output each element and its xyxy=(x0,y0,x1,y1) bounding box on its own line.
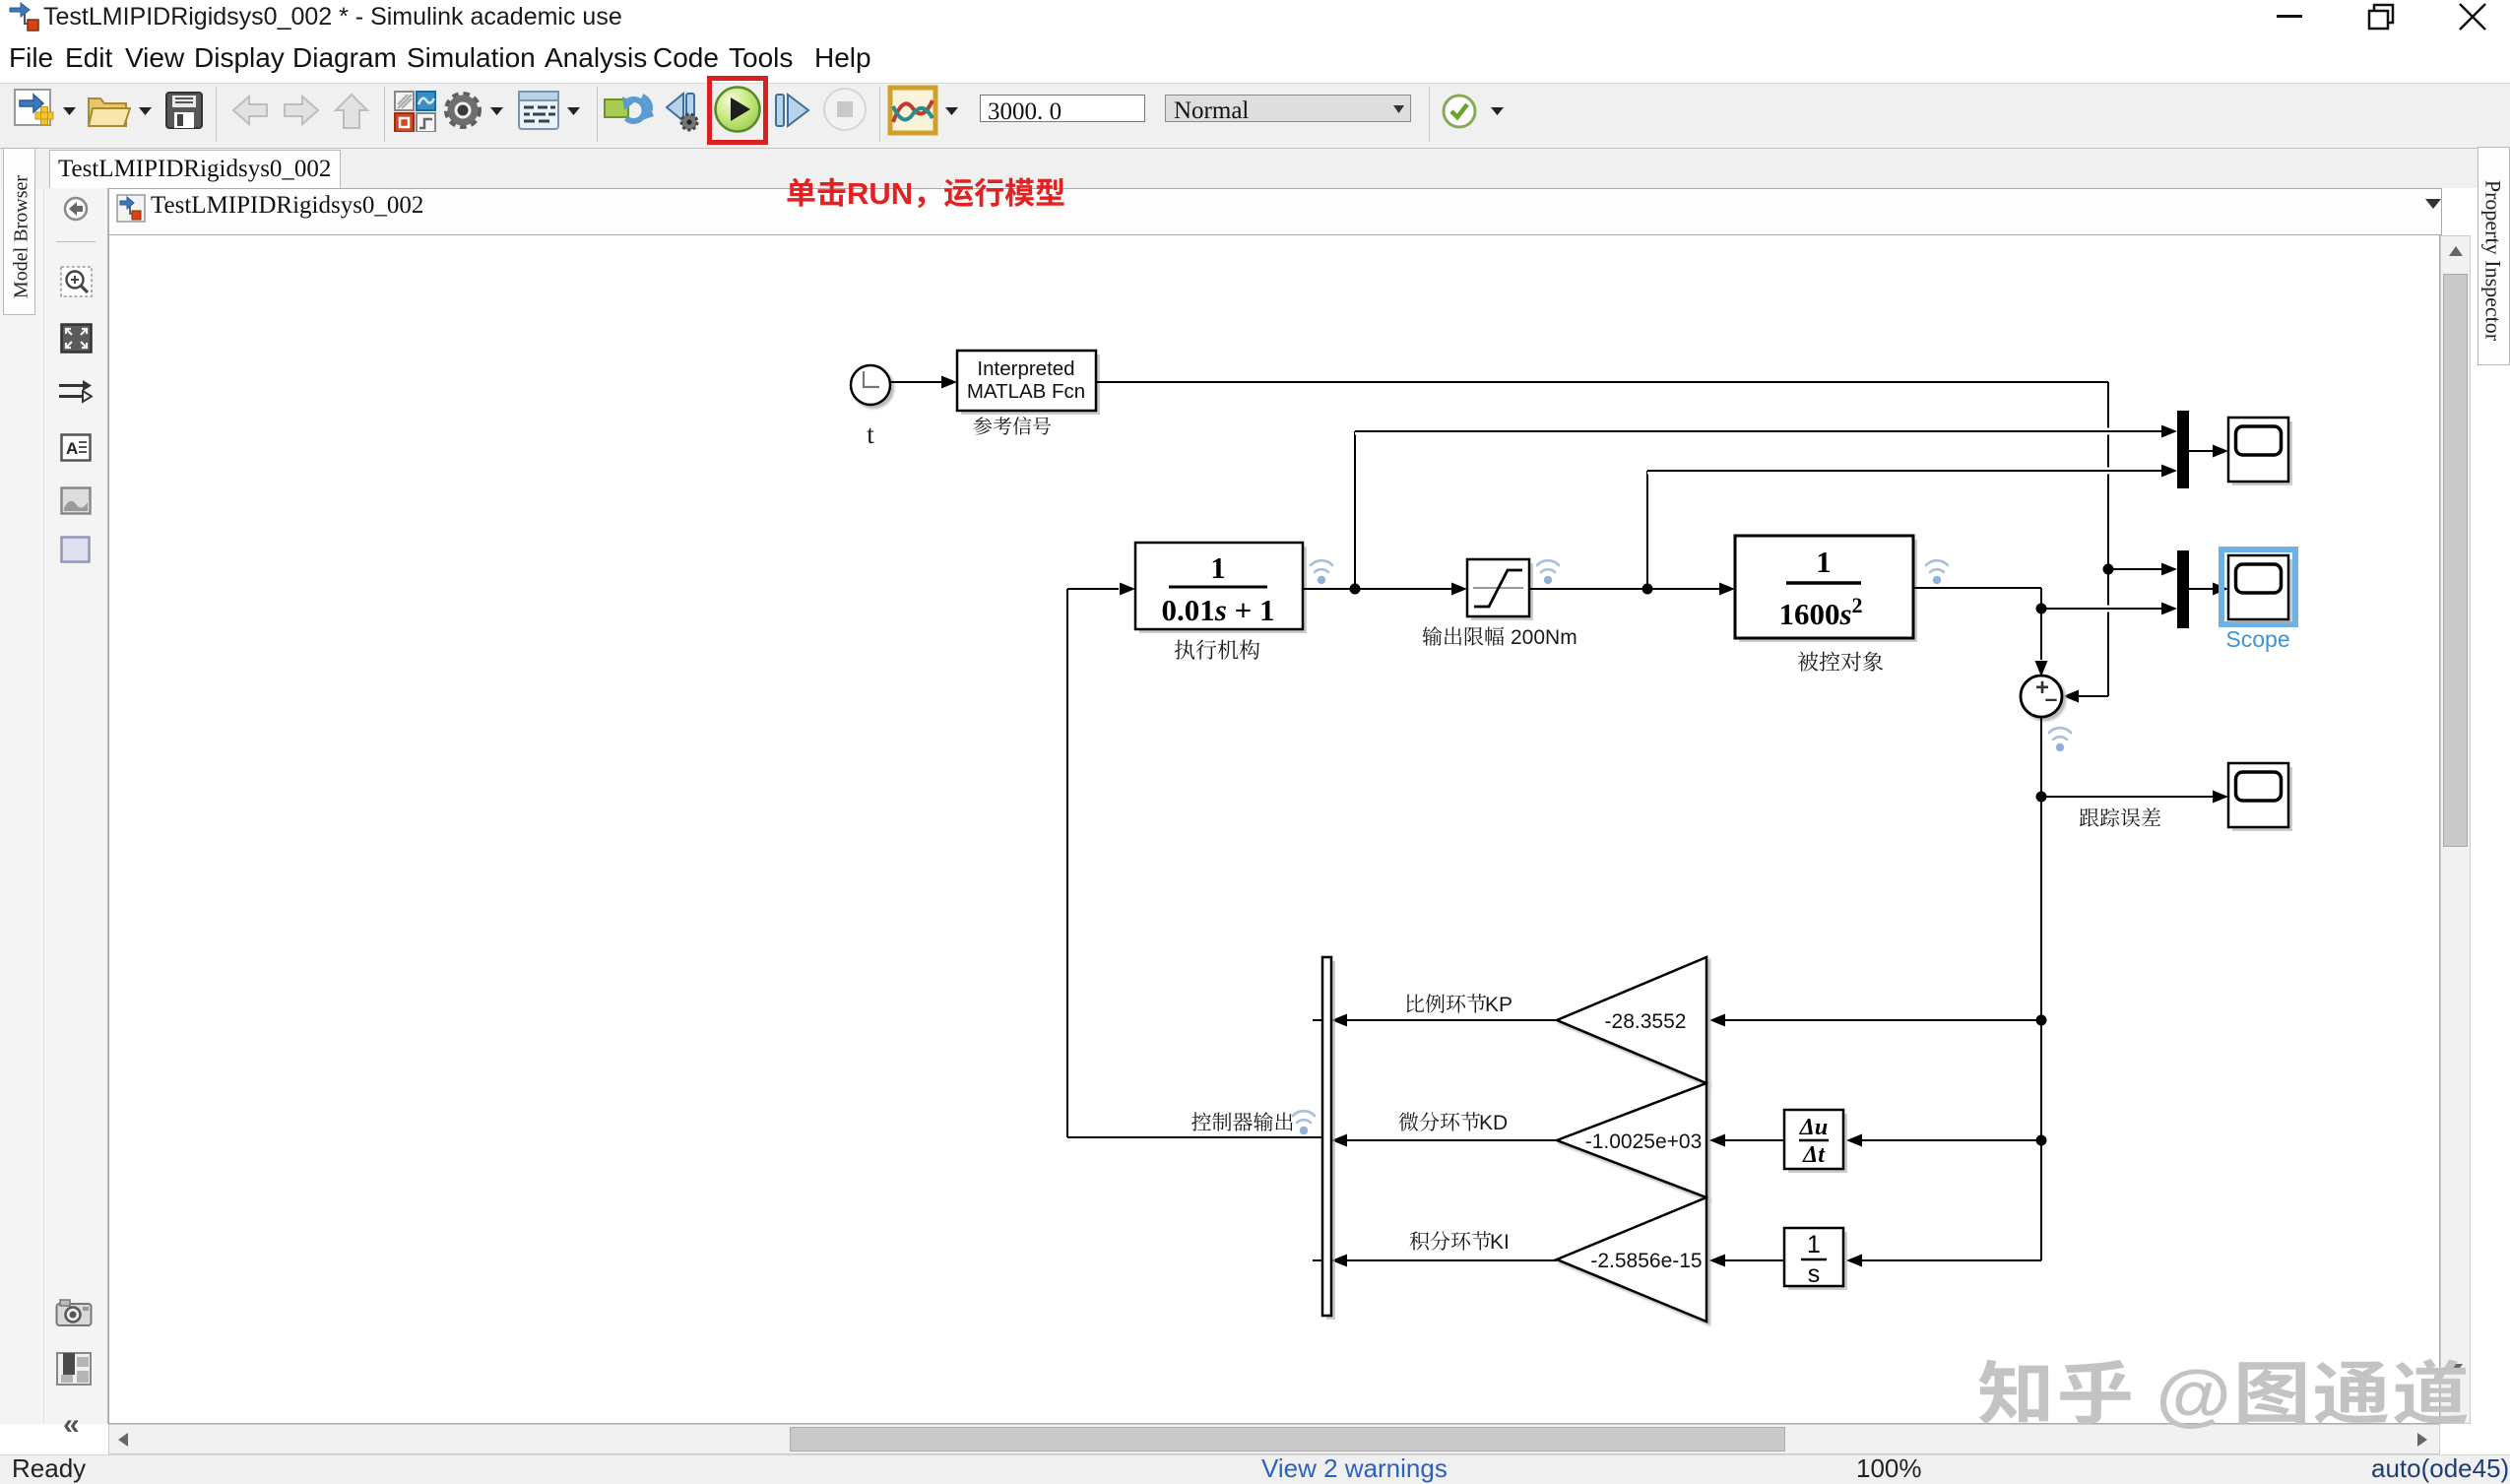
palette: pan/palette button xyxy=(55,1351,93,1387)
window restore button xyxy=(2367,3,2397,32)
svg-text:KD: KD xyxy=(1479,1112,1508,1134)
watermark 知乎 @图通道 xyxy=(1977,1339,2472,1439)
toolbar: simulation data inspector button xyxy=(887,85,938,136)
svg-text:s: s xyxy=(1808,1260,1821,1288)
scope block (top, unnamed) xyxy=(2228,418,2292,485)
menu bar xyxy=(0,35,2510,83)
block Δu/Δt difference xyxy=(1784,1110,1847,1173)
wire clock to Interpreted MATLAB Fcn xyxy=(890,376,957,389)
wire gain KP to add bar xyxy=(1331,1014,1557,1027)
wire reference signal: Fcn output right, down, to sum and mux2 xyxy=(1096,382,2108,696)
gain KP -28.3552 比例环节 xyxy=(1557,957,1706,1083)
svg-text:KP: KP xyxy=(1485,994,1512,1016)
logging badge saturation xyxy=(1537,560,1559,584)
scope block Scope (selected) xyxy=(2221,549,2295,624)
junction node to gain KP xyxy=(1709,1014,2047,1027)
toolbar: library browser button xyxy=(392,89,437,132)
svg-text:1600s2: 1600s2 xyxy=(1778,593,1862,631)
palette: zoom button xyxy=(60,266,93,297)
wire mux1 to scope1 xyxy=(2189,445,2228,458)
window minimize button xyxy=(2277,15,2302,18)
svg-text:执行机构: 执行机构 xyxy=(1174,634,1260,665)
svg-text:Δu: Δu xyxy=(1799,1115,1828,1140)
svg-text:Scope: Scope xyxy=(2225,626,2289,652)
toolbar: step forward button xyxy=(773,92,812,129)
wire Δu/Δt to gain KD xyxy=(1709,1134,1784,1147)
junction node to Δu/Δt xyxy=(1846,1134,2047,1147)
palette: fit to view button xyxy=(60,323,93,354)
wire to mux1 input 2 xyxy=(1647,465,2177,478)
wire saturation output to 被控对象 xyxy=(1529,583,1735,596)
bottom horizontal scrollbar xyxy=(108,1424,2440,1454)
svg-text:-1.0025e+03: -1.0025e+03 xyxy=(1585,1130,1703,1153)
svg-text:Δt: Δt xyxy=(1802,1142,1826,1168)
palette: collapse button xyxy=(63,1408,80,1442)
block Interpreted MATLAB Fcn (参考信号) xyxy=(957,351,1100,415)
toolbar: new model button xyxy=(12,87,55,132)
wire sum output down (feedback trunk) xyxy=(2040,717,2042,1260)
window close button xyxy=(2458,2,2487,32)
breadcrumb dropdown arrow xyxy=(2423,197,2443,211)
wire into sum minus input xyxy=(2063,690,2108,703)
status bar xyxy=(0,1454,2510,1484)
mux M2 (middle) xyxy=(2177,550,2189,628)
junction node after saturation xyxy=(1642,471,1653,595)
wire corner to 1/s xyxy=(1846,1255,2041,1267)
palette: annotation button xyxy=(60,433,92,462)
toolbar: stop button (disabled) xyxy=(821,86,869,133)
palette: image button xyxy=(60,486,92,515)
palette: viewmark button xyxy=(60,536,91,563)
logging badge sum xyxy=(2049,728,2071,751)
toolbar: back button (disabled) xyxy=(229,92,271,129)
block Clock (t) xyxy=(851,365,890,405)
svg-text:MATLAB Fcn: MATLAB Fcn xyxy=(967,380,1085,403)
svg-text:积分环节: 积分环节 xyxy=(1409,1226,1492,1256)
title text xyxy=(43,3,622,32)
logging badge 控制器输出 xyxy=(1293,1111,1315,1134)
wire 被控对象 output right and down to sum xyxy=(1913,588,2048,677)
toolbar: update diagram button xyxy=(603,91,656,130)
wire to mux1 input 1 xyxy=(1355,425,2177,438)
palette: screenshot (camera) button xyxy=(55,1298,93,1327)
breadcrumb bar xyxy=(108,188,2442,235)
block saturation 输出限幅 200Nm xyxy=(1467,559,1533,620)
wire 1/s to gain KI xyxy=(1709,1255,1784,1267)
svg-text:比例环节: 比例环节 xyxy=(1404,989,1487,1018)
svg-text:0.01s + 1: 0.01s + 1 xyxy=(1162,593,1275,627)
breadcrumb text xyxy=(151,185,423,221)
palette: hide markup button xyxy=(63,196,89,222)
logging badge 被控对象 xyxy=(1926,560,1948,584)
toolbar: settings (gear) button xyxy=(440,88,487,133)
svg-text:KI: KI xyxy=(1490,1231,1510,1254)
svg-text:控制器输出: 控制器输出 xyxy=(1191,1107,1295,1136)
wire 执行机构 output to saturation xyxy=(1303,583,1467,596)
toolbar: RUN button (highlighted) xyxy=(713,85,762,134)
svg-text:参考信号: 参考信号 xyxy=(973,411,1052,439)
scope block 跟踪误差 xyxy=(2228,763,2292,831)
toolbar: step back button xyxy=(664,90,709,133)
annotation red box around RUN xyxy=(707,76,768,145)
Model Browser side tab xyxy=(3,148,35,315)
svg-text:1: 1 xyxy=(1816,545,1832,579)
svg-text:t: t xyxy=(867,419,874,449)
junction node after 执行机构 xyxy=(1350,431,1361,595)
left palette strip xyxy=(43,188,108,1424)
breadcrumb model icon xyxy=(116,194,146,223)
toolbar: open button xyxy=(85,89,132,132)
tab row xyxy=(0,149,2510,188)
block transfer function 1/(0.01s+1) 执行机构 xyxy=(1135,543,1307,633)
svg-text:200Nm: 200Nm xyxy=(1511,626,1577,649)
logging badge 执行机构 xyxy=(1311,560,1332,584)
wire gain KD to add bar xyxy=(1331,1134,1557,1147)
toolbar: model advisor check button xyxy=(1440,92,1479,131)
wire add bar output feedback to 执行机构 xyxy=(1067,583,1322,1138)
right vertical scrollbar xyxy=(2440,235,2471,1424)
title bar app icon xyxy=(8,2,41,33)
svg-text:1: 1 xyxy=(1807,1231,1821,1258)
gain KD -1.0025e+03 微分环节 xyxy=(1557,1083,1706,1197)
junction node to mux2 input 2 xyxy=(2036,603,2178,615)
palette: signal routing button xyxy=(57,379,93,405)
svg-text:–: – xyxy=(2045,685,2058,711)
document tab xyxy=(49,150,341,188)
toolbar: up button (disabled) xyxy=(332,91,371,130)
add block bar 控制器输出 xyxy=(1313,957,1335,1320)
toolbar: save button xyxy=(162,89,206,132)
toolbar xyxy=(0,83,2510,149)
annotation 单击RUN，运行模型 xyxy=(786,168,1065,213)
gain KI -2.5856e-15 积分环节 xyxy=(1557,1197,1706,1322)
junction node reference/mux2 xyxy=(2103,563,2178,576)
block integrator 1/s xyxy=(1784,1228,1847,1290)
svg-text:跟踪误差: 跟踪误差 xyxy=(2079,803,2161,832)
sum block (+/-) xyxy=(2021,675,2062,717)
wire gain KI to add bar xyxy=(1331,1255,1557,1267)
toolbar: simulation mode combo Normal xyxy=(1165,95,1411,122)
canvas xyxy=(108,235,2440,1424)
left outer strip xyxy=(0,188,43,1424)
toolbar: model configuration button xyxy=(516,89,561,132)
window title bar xyxy=(0,0,2510,35)
junction node to 跟踪误差 xyxy=(2036,791,2229,804)
mux M1 (top) xyxy=(2177,411,2189,488)
svg-text:Interpreted: Interpreted xyxy=(977,357,1074,380)
svg-text:被控对象: 被控对象 xyxy=(1797,646,1884,677)
toolbar: simulation stop time field xyxy=(980,95,1145,122)
wire mux2 to Scope xyxy=(2189,583,2228,596)
svg-text:-2.5856e-15: -2.5856e-15 xyxy=(1590,1250,1702,1272)
svg-text:微分环节: 微分环节 xyxy=(1398,1107,1481,1136)
svg-text:1: 1 xyxy=(1210,550,1226,585)
svg-text:输出限幅: 输出限幅 xyxy=(1422,621,1505,651)
block transfer function 1/1600s^2 被控对象 xyxy=(1735,536,1917,642)
svg-text:-28.3552: -28.3552 xyxy=(1605,1010,1687,1033)
Property Inspector side tab xyxy=(2478,147,2510,365)
toolbar: forward button (disabled) xyxy=(281,92,322,129)
